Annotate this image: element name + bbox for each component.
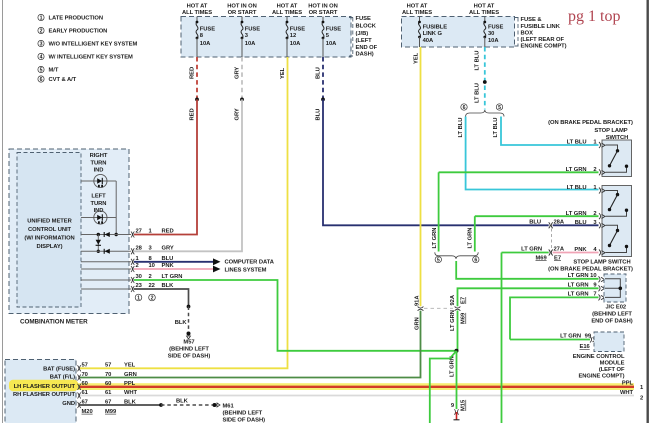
label BLU upper (316, 67, 322, 79)
svg-text:COMPUTER DATA: COMPUTER DATA (225, 260, 275, 266)
highlight PPL wire band (78, 383, 634, 390)
svg-text:LT GRN: LT GRN (568, 292, 589, 298)
pin labels 28 3 GRY (136, 245, 174, 251)
wire LT GRN splice to M15 (456, 351, 458, 409)
splice on BLU (321, 98, 325, 102)
wire YEL from fusible link G to 91A (420, 47, 422, 306)
svg-text:E16: E16 (580, 344, 591, 350)
fuse & fusible link box (402, 17, 515, 48)
CYAN (458, 47, 599, 190)
FUSEBLOCK1 (181, 3, 378, 57)
unified meter control unit label (24, 218, 74, 250)
legend item 2 EARLY PRODUCTION (38, 27, 107, 34)
header HOT AT ALL TIMES (fuse 30) (469, 3, 499, 15)
wire LT BLU branch 5 to stop lamp switch A pin 1 (501, 117, 599, 146)
wire WHT (80, 395, 634, 397)
svg-text:TURN: TURN (91, 160, 107, 166)
wire LT GRN to ECM pin 99 (510, 339, 590, 341)
wire BLU 28A to switch pin 3 (553, 224, 599, 226)
svg-text:27: 27 (136, 229, 142, 235)
pin 2 connector (131, 266, 134, 272)
svg-text:STOP LAMP SWITCH: STOP LAMP SWITCH (573, 259, 630, 265)
J/C pin 7 connector (599, 294, 605, 300)
svg-text:LT BLU: LT BLU (567, 140, 587, 146)
pin labels 57 57 YEL (82, 363, 136, 369)
splice LT GRN (455, 349, 459, 353)
svg-text:GRN: GRN (414, 317, 420, 330)
fusible link box label bracket (515, 18, 519, 47)
svg-text:28A: 28A (554, 219, 565, 225)
svg-text:6: 6 (40, 77, 43, 83)
J/C pin 10 label (568, 273, 597, 279)
svg-text:EARLY PRODUCTION: EARLY PRODUCTION (49, 29, 108, 35)
label YEL fusible link (413, 52, 419, 64)
svg-text:FUSIBLE LINK: FUSIBLE LINK (521, 24, 561, 30)
svg-text:BLOCK: BLOCK (356, 23, 377, 29)
svg-text:LH FLASHER OUTPUT: LH FLASHER OUTPUT (14, 384, 76, 390)
svg-text:FUSE: FUSE (290, 26, 305, 32)
svg-text:ENGINE CONTROL: ENGINE CONTROL (573, 354, 625, 360)
svg-text:10A: 10A (245, 41, 256, 47)
svg-text:BLU: BLU (316, 67, 322, 79)
svg-text:END OF: END OF (356, 45, 378, 51)
svg-text:W/ INTELLIGENT KEY SYSTEM: W/ INTELLIGENT KEY SYSTEM (49, 55, 134, 61)
label GRN below 91A (414, 317, 420, 330)
svg-text:GND: GND (62, 401, 75, 407)
pin labels 30 2 LT GRN (136, 274, 183, 280)
svg-text:E7: E7 (461, 297, 467, 304)
svg-text:E7: E7 (554, 255, 561, 261)
wire PNK 27A to switch pin 4 (553, 252, 599, 254)
switch B pin 1 connector (599, 188, 605, 194)
label LT BLU lower (474, 83, 480, 103)
connector 91A (418, 307, 424, 311)
connector 27A (549, 250, 553, 256)
variant circle 6 (473, 256, 479, 263)
svg-text:YEL: YEL (413, 52, 419, 64)
svg-text:STOP LAMP: STOP LAMP (594, 128, 627, 134)
svg-text:ENGINE COMPT): ENGINE COMPT) (521, 44, 567, 50)
svg-text:M/T: M/T (49, 68, 59, 74)
svg-text:YEL: YEL (280, 67, 286, 79)
svg-text:PPL: PPL (622, 380, 634, 386)
switch A pin label LT GRN 2 (566, 167, 597, 173)
svg-text:LT GRN: LT GRN (560, 334, 581, 340)
svg-text:SIDE OF DASH): SIDE OF DASH) (168, 354, 211, 360)
svg-text:MODULE: MODULE (600, 361, 625, 367)
header HOT AT ALL TIMES (fuse 12) (272, 3, 302, 15)
computer data lines system label (225, 260, 275, 274)
pin 30 connector (131, 277, 134, 283)
header HOT IN ON OR START (fuse 3) (227, 3, 257, 15)
svg-text:61: 61 (105, 390, 112, 396)
svg-text:12: 12 (290, 33, 296, 39)
svg-text:ALL TIMES: ALL TIMES (402, 10, 432, 16)
svg-text:LT BLU: LT BLU (474, 83, 480, 103)
svg-text:ALL TIMES: ALL TIMES (469, 10, 499, 16)
svg-text:6: 6 (463, 105, 466, 111)
svg-text:1: 1 (40, 16, 43, 22)
harness boundary 91A/92A dashed (424, 307, 453, 309)
J/C pin 7 label (568, 292, 597, 298)
label M61 (223, 403, 266, 423)
label RED upper (190, 67, 196, 79)
pin labels 27 1 RED (136, 229, 174, 235)
svg-text:LT GRN: LT GRN (468, 228, 474, 249)
svg-text:2: 2 (149, 274, 152, 280)
switch A pin 2 wire LT GRN (439, 171, 599, 173)
SWITCHES (439, 120, 633, 273)
svg-text:60: 60 (82, 381, 88, 387)
svg-text:OR START: OR START (228, 10, 257, 16)
svg-text:HOT AT: HOT AT (277, 3, 298, 9)
wire GRY dashed from fuse 3 (241, 57, 243, 99)
PPLWHT (78, 383, 634, 395)
svg-text:3: 3 (40, 42, 43, 48)
svg-text:10A: 10A (488, 38, 499, 44)
labels LT GRN 27A PNK 4 (521, 247, 565, 253)
svg-text:LT GRN: LT GRN (432, 228, 438, 249)
svg-text:LINES SYSTEM: LINES SYSTEM (225, 268, 267, 274)
svg-text:22: 22 (149, 283, 155, 289)
junction diode column row27 (97, 233, 100, 236)
variant circle 2 (149, 294, 156, 301)
svg-text:YEL: YEL (124, 363, 136, 369)
svg-text:HOT AT: HOT AT (407, 3, 428, 9)
svg-text:BLK: BLK (175, 320, 188, 326)
splice on LT BLU (483, 80, 487, 84)
pin 28 connector (131, 248, 134, 254)
LEGEND (38, 14, 138, 83)
svg-text:UNIFIED METER: UNIFIED METER (27, 218, 72, 224)
splice BLK M57 (187, 305, 191, 309)
unified meter control unit box (17, 153, 81, 308)
svg-text:23: 23 (136, 283, 143, 289)
svg-text:BLU: BLU (316, 109, 322, 121)
switch B pin label PNK 4 (574, 247, 597, 253)
svg-text:(W/ INFORMATION: (W/ INFORMATION (24, 235, 74, 241)
wire RED to pin 27 (134, 99, 197, 234)
svg-text:2: 2 (151, 296, 154, 302)
svg-text:PPL: PPL (124, 381, 136, 387)
header HOT AT ALL TIMES (fuse 8) (182, 3, 212, 15)
label 9 M15 (451, 399, 467, 411)
svg-text:M15: M15 (461, 399, 467, 411)
wire BLU to connector 28A (323, 99, 549, 225)
svg-text:GRN: GRN (124, 372, 137, 378)
variant circle 5 (435, 256, 441, 263)
splice on GRY (240, 98, 244, 102)
svg-text:CONTROL UNIT: CONTROL UNIT (28, 227, 72, 233)
svg-text:BLK: BLK (162, 283, 175, 289)
wire pin2 row stub (81, 268, 131, 270)
svg-text:BOX: BOX (521, 30, 534, 36)
svg-text:DASH): DASH) (356, 51, 374, 57)
J/C internal junction (619, 287, 623, 291)
fuse F12 10A (286, 17, 306, 58)
stop lamp switch B box (602, 186, 632, 257)
svg-text:10A: 10A (290, 41, 301, 47)
wire LT GRN switch A branch down (438, 172, 440, 251)
svg-text:30: 30 (488, 31, 494, 37)
pin labels 61 61 WHT (82, 390, 138, 396)
svg-text:27A: 27A (554, 247, 565, 253)
legend item 1 LATE PRODUCTION (38, 14, 103, 21)
svg-text:J/C E02: J/C E02 (606, 304, 627, 310)
wire pin28 row stub (81, 250, 131, 252)
connector M61 terminal (213, 403, 221, 407)
svg-text:5: 5 (437, 258, 440, 264)
svg-text:RED: RED (190, 67, 196, 79)
TOPWIRES (80, 47, 549, 368)
svg-text:RED: RED (162, 229, 174, 235)
svg-text:2: 2 (593, 167, 596, 173)
pin 27 connector (131, 232, 134, 238)
svg-text:(ON BRAKE PEDAL BRACKET): (ON BRAKE PEDAL BRACKET) (548, 267, 633, 273)
svg-text:(LEFT REAR OF: (LEFT REAR OF (521, 37, 565, 43)
split bracket for LT BLU variants (466, 110, 504, 117)
labels M69 E7 (536, 255, 562, 261)
connector 92A (455, 307, 461, 311)
svg-text:pg 1 top: pg 1 top (568, 8, 620, 25)
highlight LH FLASHER OUTPUT (9, 380, 78, 391)
svg-text:30: 30 (136, 274, 142, 280)
svg-text:TURN: TURN (91, 201, 107, 207)
svg-text:WHT: WHT (620, 390, 634, 396)
wire LT GRN merged to J/C pin 10 (456, 261, 598, 279)
right turn ind label (90, 153, 108, 174)
switch B lower internals (606, 225, 629, 252)
svg-text:GRY: GRY (235, 108, 241, 120)
label M69 vertical (461, 312, 467, 324)
engine control module box (594, 332, 624, 352)
wire LT GRN J/C pin 7 elbow (510, 297, 599, 339)
pin labels 67 67 BLK (82, 399, 137, 405)
fuse F8 10A (196, 17, 216, 58)
merge bracket LT GRN variants (435, 252, 478, 259)
connector 28A (549, 222, 553, 228)
wire BLU dashed from fuse 5 (322, 57, 324, 99)
engine control module label (573, 354, 625, 380)
arrow BLU data line (213, 258, 221, 265)
harness boundary M69/E7 dashed (551, 229, 553, 250)
svg-text:BAT (FUSE): BAT (FUSE) (43, 366, 75, 372)
svg-text:(LEFT OF: (LEFT OF (599, 367, 625, 373)
switch A pin label LT BLU 1 (567, 140, 598, 146)
LEFT_BORDER (2, 0, 4, 423)
svg-text:FUSE: FUSE (326, 26, 341, 32)
pin labels 70 70 GRN (82, 372, 137, 378)
svg-text:(BEHIND LEFT: (BEHIND LEFT (223, 410, 263, 416)
J/C E02 box (604, 274, 626, 302)
svg-text:HOT IN ON: HOT IN ON (308, 3, 338, 9)
label LT BLU branch 5 (493, 118, 499, 138)
svg-text:LEFT: LEFT (91, 194, 106, 200)
pin 70 connector (78, 375, 81, 381)
wire BLK dashed to M61 (161, 404, 213, 406)
ECM pin 99 label (560, 334, 592, 340)
wire BLU computer data line (134, 261, 213, 263)
svg-text:91A: 91A (414, 295, 420, 306)
variant circle 5 (496, 104, 502, 111)
fusible link G 40A (418, 17, 447, 48)
svg-text:M61: M61 (223, 403, 235, 409)
svg-text:FUSE &: FUSE & (521, 17, 542, 23)
FUSEBLOCK2 (402, 3, 567, 49)
wire pin1 row stub (81, 261, 131, 263)
variant circle 1 (135, 294, 142, 301)
arrow PNK data line (213, 266, 221, 273)
fuse & fusible link box label (521, 17, 567, 50)
header HOT AT ALL TIMES (fusible link G) (402, 3, 432, 15)
svg-text:DISPLAY): DISPLAY) (36, 244, 62, 250)
svg-text:70: 70 (82, 372, 88, 378)
splice on RED (195, 98, 199, 102)
svg-text:RH FLASHER OUTPUT: RH FLASHER OUTPUT (13, 392, 75, 398)
svg-text:40A: 40A (423, 38, 434, 44)
splice BLK GND (159, 403, 163, 407)
svg-text:LT GRN: LT GRN (566, 167, 587, 173)
wire LT GRN from pin 30 to splice (134, 280, 456, 351)
svg-text:LT GRN: LT GRN (162, 274, 183, 280)
wire GRY to pin 28 (134, 99, 242, 251)
switch B upper internals (606, 191, 629, 217)
pin labels 1 8 BLU (136, 256, 174, 262)
label RED lower (190, 108, 196, 120)
svg-text:BLK: BLK (176, 398, 189, 404)
stop lamp switch A label (548, 120, 633, 141)
switch B pin 3 connector (599, 222, 605, 228)
svg-text:HOT AT: HOT AT (474, 3, 495, 9)
pin labels 2 10 PNK (136, 263, 175, 269)
svg-text:(LEFT: (LEFT (356, 38, 373, 44)
pin 1 connector (131, 259, 134, 265)
combination meter box (9, 149, 129, 314)
svg-text:(BEHIND LEFT: (BEHIND LEFT (592, 311, 632, 317)
svg-text:LT BLU: LT BLU (567, 185, 587, 191)
diode on pin27 row (104, 232, 110, 237)
svg-text:BAT (F/L): BAT (F/L) (50, 375, 75, 381)
svg-text:ENGINE COMPT): ENGINE COMPT) (578, 374, 624, 380)
switch B pin 2 connector (599, 213, 605, 219)
wire BLK from pin 23 to M57 (134, 289, 189, 307)
svg-text:HOT IN ON: HOT IN ON (227, 3, 257, 9)
svg-text:92A: 92A (450, 294, 456, 305)
pin 23 connector (131, 286, 134, 292)
svg-text:ALL TIMES: ALL TIMES (272, 10, 302, 16)
svg-text:M69: M69 (536, 255, 548, 261)
switch A pin 2 connector (599, 169, 605, 175)
svg-text:GRY: GRY (162, 245, 174, 251)
left turn indicator lamp (81, 211, 116, 224)
svg-text:10: 10 (590, 273, 596, 279)
svg-text:CVT & A/T: CVT & A/T (49, 77, 77, 83)
BOTTOMBOX (5, 360, 644, 423)
svg-text:99: 99 (585, 334, 592, 340)
J/C E02 label (591, 304, 632, 324)
stop lamp switch A box (602, 140, 632, 177)
wire pin27 row stub (81, 234, 131, 236)
label GRY lower (235, 108, 241, 120)
wire BLK GND to splice (80, 404, 161, 406)
legend item 4 W/ INTELLIGENT KEY SYSTEM (38, 53, 133, 60)
left turn ind label (91, 194, 107, 215)
svg-text:70: 70 (105, 372, 111, 378)
svg-text:M20: M20 (82, 409, 93, 415)
wire diode column (97, 235, 99, 252)
svg-text:FUSE: FUSE (356, 16, 371, 22)
svg-text:BLU: BLU (529, 219, 541, 225)
switch A internals (606, 145, 629, 172)
svg-text:RIGHT: RIGHT (90, 153, 108, 159)
fuse block (J/B) label (356, 16, 378, 57)
svg-text:RED: RED (190, 108, 196, 120)
svg-text:LT GRN: LT GRN (450, 310, 456, 331)
svg-text:M99: M99 (105, 409, 117, 415)
svg-text:28: 28 (136, 245, 143, 251)
wire lamp common (115, 181, 117, 235)
pin 67 connector (78, 402, 81, 408)
svg-text:COMBINATION METER: COMBINATION METER (20, 319, 88, 326)
svg-text:SIDE OF DASH): SIDE OF DASH) (223, 417, 266, 423)
flasher unit box (5, 360, 76, 423)
svg-text:LT BLU: LT BLU (458, 118, 464, 138)
label LT GRN below 92A (450, 310, 456, 331)
diode vertical (96, 240, 101, 246)
svg-text:2: 2 (640, 395, 643, 401)
switch B pin label LT BLU 1 (567, 185, 598, 191)
connector M15 pin 9 (454, 409, 460, 420)
svg-text:LT GRN: LT GRN (568, 282, 589, 288)
svg-text:7: 7 (593, 292, 596, 298)
svg-text:LINK G: LINK G (423, 31, 443, 37)
wire pin23 row stub (81, 288, 131, 290)
svg-text:FUSE: FUSE (245, 26, 260, 32)
pin 60 connector (78, 384, 81, 390)
svg-text:FUSIBLE: FUSIBLE (423, 25, 448, 31)
svg-text:ALL TIMES: ALL TIMES (182, 10, 212, 16)
switch B pin 2 wire LT GRN (475, 215, 599, 217)
svg-text:6: 6 (474, 258, 477, 264)
fuse F3 10A (241, 17, 261, 58)
wire LT GRN jog down-left off page (430, 351, 457, 423)
labels BLU 28A BLU 3 (529, 219, 565, 225)
wire YEL from fuse 12 to BAT(FUSE) (80, 57, 288, 368)
label 91A (414, 295, 420, 306)
svg-text:IND: IND (94, 168, 104, 174)
svg-text:57: 57 (105, 363, 111, 369)
svg-text:5: 5 (498, 105, 501, 111)
svg-text:LT GRN: LT GRN (521, 247, 542, 253)
label M57 (168, 340, 211, 360)
svg-text:4: 4 (40, 55, 43, 61)
svg-text:LT BLU: LT BLU (474, 51, 480, 71)
label 92A (450, 294, 456, 305)
CONNECTORS (80, 219, 599, 377)
svg-text:57: 57 (82, 363, 88, 369)
svg-text:END OF DASH): END OF DASH) (591, 318, 632, 324)
RIGHT_BORDER (647, 0, 649, 423)
svg-text:LT BLU: LT BLU (493, 118, 499, 138)
wire LT GRN J/C pin 9 to 92A (458, 288, 599, 306)
J/C pin 9 label (568, 282, 598, 288)
svg-text:LATE PRODUCTION: LATE PRODUCTION (49, 16, 104, 22)
switch B pin label LT GRN 2 (566, 211, 597, 217)
label BLU lower (316, 109, 322, 121)
pin 57 connector (78, 365, 81, 371)
svg-text:2: 2 (40, 29, 43, 35)
svg-text:FUSE: FUSE (488, 25, 503, 31)
